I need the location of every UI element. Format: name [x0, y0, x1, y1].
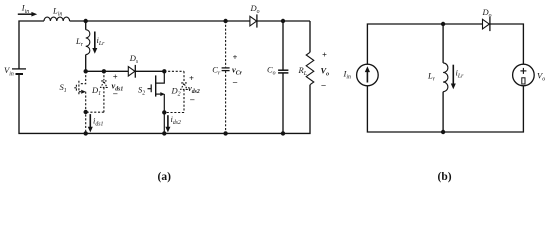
svg-text:Iin: Iin: [343, 69, 351, 81]
svg-text:Vin: Vin: [4, 65, 14, 77]
svg-text:Vo: Vo: [537, 71, 545, 83]
svg-text:(a): (a): [158, 171, 172, 183]
wire: top rail from Do to RL: [257, 20, 310, 22]
svg-text:–: –: [232, 77, 238, 87]
wire: (b) bottom rail + source leads: [367, 86, 523, 132]
diode Do: [250, 14, 257, 27]
voltage source Vo (b): [513, 64, 535, 86]
svg-text:Do: Do: [250, 3, 260, 15]
svg-text:D2: D2: [171, 86, 181, 98]
wire: RL top lead: [309, 21, 311, 52]
capacitor Cr (dashed branch): [222, 21, 230, 134]
svg-text:iLr: iLr: [97, 35, 106, 47]
svg-text:Lin: Lin: [52, 6, 62, 18]
svg-text:RL: RL: [298, 65, 307, 77]
svg-text:Ds: Ds: [129, 53, 139, 65]
wire: mid rail from Ds to S2 drain: [135, 70, 164, 72]
svg-text:S2: S2: [138, 85, 145, 97]
svg-text:+: +: [322, 50, 327, 60]
svg-text:+: +: [189, 73, 194, 83]
resistor RL: [306, 52, 314, 84]
svg-text:Do: Do: [482, 7, 492, 19]
transistor S1 (dashed): [73, 71, 86, 133]
current source Iin (b): [357, 64, 379, 86]
inductor Lr: [86, 30, 90, 55]
wire: top rail left segment + left vertical to Vin: [19, 21, 44, 69]
diode D1 (dashed body diode): [86, 71, 107, 112]
capacitor Co: [278, 21, 288, 133]
diode Do (b): [483, 17, 490, 31]
svg-text:S1: S1: [60, 82, 67, 94]
svg-text:–: –: [321, 80, 327, 90]
svg-text:ids2: ids2: [171, 114, 182, 126]
svg-text:ids1: ids1: [93, 116, 104, 128]
svg-text:Cr: Cr: [212, 65, 221, 77]
battery Vin: [12, 69, 26, 74]
diode D2 (dashed body diode): [164, 71, 187, 112]
diode Ds: [128, 65, 135, 78]
inductor Lin: [44, 17, 70, 21]
wire: Lr bottom lead: [85, 55, 87, 72]
transistor S2 body arrowhead: [160, 92, 165, 96]
svg-text:D1: D1: [91, 85, 101, 97]
svg-text:iLr: iLr: [456, 68, 465, 80]
current arrow iLr: [92, 32, 97, 54]
svg-text:+: +: [233, 52, 238, 62]
current arrow iLr (b): [451, 65, 456, 90]
svg-text:Vo: Vo: [321, 66, 330, 78]
node: junction dots circuit (a): [84, 19, 286, 136]
current arrow Iin: [18, 12, 37, 17]
inductor Lr (b): [443, 63, 448, 92]
svg-text:–: –: [112, 88, 118, 98]
wire: (b) Lr top lead: [442, 24, 444, 63]
wire: top rail from Lin to Do anode: [70, 20, 250, 22]
svg-text:vCr: vCr: [232, 64, 243, 76]
svg-text:Co: Co: [267, 64, 276, 76]
transistor S1 body arrowhead: [81, 90, 86, 94]
wire: RL bottom lead + bottom rail: [19, 75, 310, 134]
svg-text:–: –: [189, 94, 195, 104]
wire: Lr top lead: [85, 21, 87, 30]
svg-text:Lr: Lr: [75, 36, 84, 48]
svg-text:Lr: Lr: [427, 71, 436, 83]
svg-text:(b): (b): [438, 171, 452, 183]
wire: (b) top rail right + right vertical: [490, 24, 524, 64]
svg-text:Iin: Iin: [21, 3, 29, 15]
wire: mid rail from node A to Ds anode: [86, 70, 129, 72]
wire: (b) top rail + left vertical: [367, 24, 482, 64]
transistor S2: [148, 71, 165, 133]
node: junction dots circuit (b): [441, 22, 445, 134]
current arrow ids2: [165, 115, 170, 132]
wire: (b) Lr bottom lead: [442, 92, 444, 132]
current arrow ids1: [88, 114, 93, 132]
